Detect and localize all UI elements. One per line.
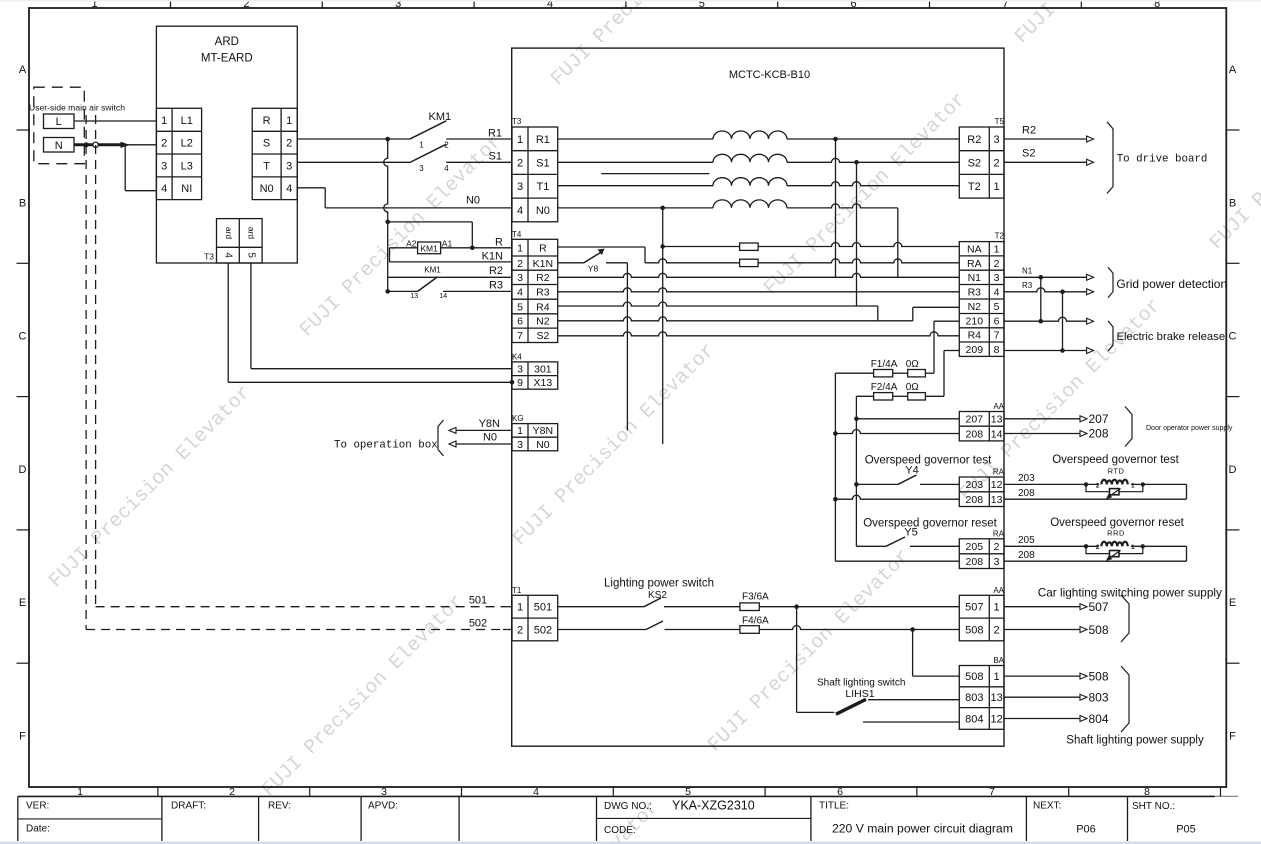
svg-text:A: A [19, 64, 27, 76]
svg-text:S2: S2 [968, 158, 981, 170]
label 803 (out) [1089, 691, 1109, 705]
svg-text:2: 2 [1096, 544, 1100, 551]
svg-text:T3: T3 [204, 252, 214, 262]
ARD block title text [201, 36, 253, 65]
vertical V1 to KG Y8N [626, 263, 628, 431]
wire 208 test return [1004, 498, 1187, 500]
svg-text:N2: N2 [968, 301, 982, 313]
svg-text:13: 13 [410, 293, 418, 300]
wire L to ARD 1|L1 [74, 120, 156, 122]
svg-text:B: B [19, 197, 26, 209]
svg-text:Grid power detection: Grid power detection [1116, 277, 1227, 291]
vertical RRD loop right [1186, 546, 1188, 561]
bracket shaft lighting [1121, 666, 1129, 732]
svg-text:1: 1 [517, 602, 523, 614]
wire T1 row with inductor [558, 182, 960, 186]
label R3 (out) [1022, 281, 1033, 290]
section label overspeed governor reset (left) [863, 517, 997, 529]
svg-text:YKA-XZG2310: YKA-XZG2310 [672, 799, 755, 813]
terminal table T5 (R2 S2 T2) [959, 127, 1004, 198]
label RA (reset) [993, 529, 1005, 538]
svg-text:K1N: K1N [533, 258, 553, 270]
pin 1 label RTD [1131, 482, 1135, 489]
svg-text:804: 804 [1089, 712, 1109, 726]
svg-text:5: 5 [245, 252, 256, 258]
svg-text:P06: P06 [1076, 824, 1096, 836]
svg-text:T: T [263, 160, 270, 172]
svg-text:K4: K4 [512, 353, 522, 362]
bracket grid power detection [1108, 267, 1113, 298]
label RA (test) [993, 468, 1005, 477]
wire R4 row to step at 877.8 [558, 302, 878, 321]
svg-text:KM1: KM1 [424, 265, 441, 274]
svg-text:508: 508 [1089, 669, 1109, 683]
svg-text:T4: T4 [512, 230, 522, 239]
svg-text:X13: X13 [534, 377, 553, 389]
svg-text:N: N [55, 140, 63, 152]
svg-text:AA: AA [993, 402, 1004, 411]
thermistor parallel branch (test) [1086, 484, 1143, 499]
svg-text:502: 502 [469, 618, 487, 630]
svg-text:4: 4 [286, 183, 292, 195]
fuse F2/4A body [874, 393, 893, 400]
switch label Y4 [905, 465, 918, 477]
dashed linkage line 1 (to 501) [96, 115, 503, 607]
svg-text:Y8: Y8 [588, 264, 599, 274]
svg-text:R2: R2 [489, 265, 503, 277]
junction dot S1/V4 [854, 160, 859, 165]
wire 207 output with arrow [1004, 416, 1087, 422]
bracket car lighting [1121, 595, 1129, 642]
svg-text:Lighting power switch: Lighting power switch [604, 578, 714, 590]
wire N1 output with arrow [1004, 274, 1094, 280]
svg-text:9: 9 [517, 377, 523, 389]
svg-text:4: 4 [223, 252, 234, 258]
svg-text:1: 1 [286, 115, 292, 127]
svg-text:L: L [56, 116, 62, 128]
svg-text:2: 2 [517, 258, 523, 270]
svg-text:RA: RA [993, 468, 1005, 477]
wire 205 to RRD [1004, 545, 1187, 547]
svg-text:NI: NI [181, 183, 192, 195]
svg-text:N0: N0 [483, 432, 497, 444]
terminal table K4 [512, 362, 558, 389]
label to drive board [1117, 154, 1208, 166]
label 207 (out) [1089, 412, 1109, 426]
fuse F2/4A row [856, 395, 944, 397]
title block texts [26, 799, 1196, 837]
label N1 (out) [1022, 266, 1033, 275]
label electric brake release [1117, 331, 1226, 343]
label T5 [995, 117, 1005, 126]
label grid power detection [1116, 277, 1227, 291]
svg-text:Overspeed governor reset: Overspeed governor reset [863, 517, 997, 529]
vertical V2 N0 net down to KG N0 [662, 208, 664, 444]
svg-text:5: 5 [685, 786, 691, 798]
svg-text:L3: L3 [181, 160, 193, 172]
svg-text:3: 3 [994, 556, 1000, 568]
wire ARD S|2 to KM1 contact (R1 line) [297, 138, 410, 140]
fuse F3/6A body [740, 603, 759, 611]
svg-text:Date:: Date: [26, 824, 50, 835]
terminal table AA door operator [959, 412, 1004, 441]
svg-text:1: 1 [517, 134, 523, 146]
svg-text:208: 208 [966, 556, 984, 568]
svg-text:R2: R2 [536, 272, 550, 284]
svg-text:205: 205 [1018, 535, 1035, 546]
svg-text:8: 8 [994, 344, 1000, 356]
label RTD [1108, 467, 1125, 476]
junction dot RRD right [1141, 544, 1145, 548]
svg-text:501: 501 [534, 602, 552, 614]
svg-text:2: 2 [161, 138, 167, 150]
svg-text:4: 4 [444, 164, 449, 173]
svg-text:14: 14 [439, 293, 447, 300]
svg-text:R2: R2 [967, 134, 981, 146]
wire R1 row with inductor [558, 138, 960, 140]
wire LIHS1 to BA 803 [868, 699, 959, 701]
bracket door operator power supply [1125, 407, 1132, 447]
svg-text:DWG NO.:: DWG NO.: [604, 801, 652, 812]
wire T4 1|R to step [558, 247, 645, 263]
open circle on N wire [93, 142, 98, 147]
svg-text:KG: KG [512, 414, 524, 423]
svg-text:2: 2 [1096, 482, 1100, 489]
svg-text:F: F [19, 731, 26, 743]
svg-text:P05: P05 [1176, 824, 1196, 836]
top strip [0, 0, 1261, 2]
svg-text:KM1: KM1 [420, 243, 438, 253]
title block grid [18, 796, 1128, 841]
svg-text:803: 803 [965, 692, 983, 704]
svg-text:2: 2 [229, 786, 235, 798]
wire BA 804 output with arrow [1004, 716, 1087, 722]
wire 208 reset row [835, 560, 959, 562]
vertical R3 to 209 [1060, 292, 1065, 353]
svg-text:2: 2 [994, 258, 1000, 270]
svg-text:T3: T3 [512, 117, 522, 126]
junction dot RTD left [1084, 482, 1088, 486]
wire ARD N0|4 to T3 4|N0 [297, 188, 512, 208]
svg-text:301: 301 [534, 364, 552, 376]
pin label 13 [410, 293, 418, 300]
svg-text:6: 6 [994, 315, 1000, 327]
terminal table T2 (NA..209) [959, 242, 1004, 357]
svg-text:0Ω: 0Ω [906, 359, 920, 370]
terminal table BA shaft lighting [959, 666, 1004, 730]
wire T4 2|K1N to Y8 switch [558, 262, 584, 264]
svg-text:ARD: ARD [215, 36, 239, 48]
svg-text:3: 3 [517, 364, 523, 376]
label F2/4A [871, 382, 898, 393]
svg-text:N1: N1 [1022, 266, 1033, 275]
wire Y8 to vertical V1 [606, 262, 627, 264]
svg-text:502: 502 [534, 624, 552, 636]
wire N to ARD 2|L2 (thick segment) [74, 143, 156, 146]
label R2 (T4) [489, 265, 503, 277]
wire KG Y8N output with left arrow [449, 427, 512, 433]
svg-text:2: 2 [994, 541, 1000, 553]
label to operation box [334, 439, 438, 451]
svg-text:Overspeed governor test: Overspeed governor test [865, 455, 992, 467]
label 508 (BA out) [1089, 669, 1109, 683]
switch pole N box [44, 138, 75, 153]
label R2 (out) [1022, 124, 1036, 136]
svg-text:LIHS1: LIHS1 [845, 688, 874, 700]
svg-text:R1: R1 [488, 127, 502, 139]
junction dot N wire branch [121, 142, 130, 148]
wire NA row from N0 node to T2 NA|1 with resistor [663, 243, 960, 247]
label T3 [512, 117, 522, 126]
label F3/6A [742, 592, 769, 603]
terminal table T3 (R1 S1 T1 N0) [512, 127, 558, 222]
svg-text:1: 1 [77, 786, 83, 798]
wire 508 output with arrow [1004, 627, 1087, 633]
label KM1 (aux) [424, 265, 441, 274]
wire 502 into T1 [503, 629, 512, 631]
wire 501 row with KS2 switch [558, 598, 740, 607]
svg-text:804: 804 [965, 713, 983, 725]
vertical tie line from R1 node down [384, 139, 388, 291]
svg-text:S: S [263, 138, 270, 150]
svg-text:APVD:: APVD: [368, 801, 398, 812]
svg-text:S1: S1 [536, 158, 549, 170]
wire ARD T|3 to KM1 contact (S1 line) [297, 161, 410, 163]
inductor choke N0 [713, 200, 787, 208]
label F1/4A [871, 359, 898, 370]
wire T4 3|R2 to aux contact node [388, 276, 512, 278]
junction dot on R wire [470, 246, 475, 251]
wire F3 to AA 507 [759, 604, 959, 609]
label 208 (test) [1018, 488, 1035, 499]
section label shaft lighting power supply [1066, 735, 1204, 747]
svg-text:1: 1 [517, 242, 523, 254]
terminal table RA governor reset [959, 539, 1004, 569]
label shaft lighting switch [817, 678, 905, 689]
junction dot V2/NA [660, 244, 665, 249]
wire drop to BA 508 [913, 630, 960, 677]
svg-text:203: 203 [1018, 473, 1035, 484]
svg-text:NEXT:: NEXT: [1033, 801, 1061, 812]
svg-text:1: 1 [517, 425, 523, 437]
svg-text:Car lighting switching power: Car lighting switching power supply [1038, 586, 1222, 600]
label Y8 [588, 264, 599, 274]
svg-text:D: D [19, 464, 27, 476]
svg-text:N0: N0 [536, 205, 550, 217]
svg-text:T1: T1 [536, 181, 549, 193]
wire 208 output with arrow [1004, 431, 1087, 437]
wire BA 803 output with arrow [1004, 694, 1087, 700]
vertical V4 from S1 to R4 row [856, 162, 858, 306]
svg-text:507: 507 [965, 602, 983, 614]
wire 208 door row [833, 430, 959, 436]
wire 203 row with Y4 switch [854, 475, 959, 487]
svg-text:3: 3 [286, 160, 292, 172]
label T1 [512, 586, 522, 595]
svg-text:208: 208 [966, 428, 984, 440]
svg-text:R2: R2 [1022, 124, 1036, 136]
fuse F1/4A row [835, 372, 934, 374]
svg-text:To drive board: To drive board [1117, 154, 1208, 166]
label KG [512, 414, 524, 423]
vertical N1 to 210 [1039, 277, 1044, 323]
svg-text:2: 2 [286, 138, 292, 150]
resistor RTD coil [1098, 479, 1131, 490]
svg-text:205: 205 [966, 541, 984, 553]
svg-text:210: 210 [966, 315, 984, 327]
svg-text:F2/4A: F2/4A [871, 382, 898, 393]
label AA (lighting) [993, 586, 1004, 595]
wire 210 output with arrow [1004, 317, 1094, 324]
label T4 [512, 230, 522, 239]
svg-text:R: R [495, 236, 503, 248]
svg-text:1: 1 [994, 671, 1000, 683]
wire ard pin 4 to K4 9|X13 [228, 263, 514, 385]
wire KG N0 output with left arrow [449, 441, 512, 447]
svg-text:208: 208 [1018, 550, 1035, 561]
svg-text:NA: NA [967, 244, 982, 256]
section label car lighting switching power supply [1038, 586, 1222, 600]
label A1 [442, 238, 453, 248]
terminal table T1 (501 502) [512, 595, 558, 641]
wire F4 to AA 508 [759, 626, 959, 632]
svg-text:3: 3 [517, 181, 523, 193]
svg-text:MT-EARD: MT-EARD [201, 53, 253, 65]
svg-text:7: 7 [989, 786, 995, 798]
svg-text:TITLE:: TITLE: [819, 801, 849, 812]
svg-text:4: 4 [517, 287, 523, 299]
wire T5 R2 output with arrow [1004, 136, 1094, 142]
label 205 [1018, 535, 1035, 546]
wire 209 output with arrow [1004, 348, 1094, 354]
svg-text:6: 6 [517, 316, 523, 328]
svg-text:N0: N0 [260, 183, 274, 195]
label 0 ohm (F1) [906, 359, 920, 370]
wire S2-R4 row [558, 332, 960, 336]
bracket to drive board [1107, 122, 1113, 194]
junction dot N0/V2 [660, 206, 665, 211]
svg-text:508: 508 [1089, 623, 1109, 637]
svg-text:REV:: REV: [268, 801, 291, 812]
right zone letters and ticks [1226, 64, 1239, 743]
svg-text:13: 13 [991, 494, 1003, 506]
svg-text:4: 4 [161, 183, 167, 195]
label N0 (KG) [483, 432, 497, 444]
switch label Y5 [904, 527, 917, 539]
contactor KM1 main contact 1-2 [410, 121, 447, 139]
fuse F1/4A body [874, 370, 893, 377]
label 501 [469, 595, 487, 607]
svg-text:3: 3 [381, 786, 387, 798]
svg-text:BA: BA [993, 656, 1004, 665]
resistor RRD coil [1098, 540, 1131, 551]
svg-text:13: 13 [990, 692, 1002, 704]
wire A1 to T4 1|R [441, 247, 512, 249]
wire R3 output with arrow [1004, 288, 1094, 295]
label 804 (out) [1089, 712, 1109, 726]
svg-text:220 V main power circuit diagr: 220 V main power circuit diagram [832, 822, 1013, 836]
label KM1 (main) [428, 111, 451, 123]
top zone ticks and numbers [92, 0, 1161, 10]
contactor KM1 aux contact 13-14 [388, 277, 512, 291]
wire 203 to RTD [1004, 483, 1187, 485]
svg-text:12: 12 [991, 479, 1003, 491]
svg-text:508: 508 [965, 671, 983, 683]
junction dot on N wire [84, 142, 89, 147]
svg-text:S2: S2 [536, 330, 549, 342]
svg-text:C: C [19, 331, 27, 343]
ARD left terminal table L1-NI [156, 108, 201, 199]
wire 208 reset return [1004, 560, 1187, 562]
svg-text:L2: L2 [181, 138, 193, 150]
wire N branch down to ARD 4|NI [125, 145, 156, 191]
svg-text:2: 2 [994, 624, 1000, 636]
label door operator power supply [1146, 425, 1233, 432]
label RRD [1107, 528, 1125, 537]
svg-text:7: 7 [517, 330, 523, 342]
wire N0 row with inductor [558, 204, 898, 208]
svg-text:AA: AA [993, 586, 1004, 595]
svg-text:ard: ard [224, 227, 234, 240]
label BA [993, 656, 1004, 665]
switch LIHS1 blade (bold) [836, 699, 866, 714]
svg-text:MCTC-KCB-B10: MCTC-KCB-B10 [729, 69, 810, 81]
svg-text:N2: N2 [536, 316, 550, 328]
svg-text:2: 2 [517, 158, 523, 170]
separator line under S1 [601, 173, 709, 175]
label N0 (left) [466, 195, 480, 207]
label T2 [995, 232, 1005, 241]
svg-text:RRD: RRD [1107, 528, 1125, 537]
branch wire to KM1 coil output node [388, 222, 473, 248]
wire S1 row with inductor [558, 158, 960, 162]
svg-text:Overspeed governor reset: Overspeed governor reset [1050, 517, 1184, 529]
inductor choke R1 [713, 131, 787, 139]
contactor KM1 main contact 3-4 [410, 144, 447, 162]
svg-text:F: F [1229, 731, 1236, 743]
svg-text:A: A [1229, 64, 1237, 76]
svg-text:1: 1 [1131, 544, 1135, 551]
svg-text:6: 6 [837, 786, 843, 798]
svg-text:T5: T5 [995, 117, 1005, 126]
svg-text:R3: R3 [968, 287, 982, 299]
pin label 1 [419, 141, 424, 150]
label KS2 [648, 590, 667, 601]
svg-text:A1: A1 [442, 238, 453, 248]
svg-text:F1/4A: F1/4A [871, 359, 898, 370]
resistor 0 ohm (F1) [908, 370, 926, 377]
svg-text:0Ω: 0Ω [906, 382, 920, 393]
svg-text:803: 803 [1089, 691, 1109, 705]
svg-text:13: 13 [991, 414, 1003, 426]
wire T5 S2 output with arrow [1004, 159, 1094, 165]
svg-text:E: E [19, 597, 26, 609]
svg-text:D: D [1229, 464, 1237, 476]
resistor on RA row [740, 259, 759, 266]
label 208 (reset) [1018, 550, 1035, 561]
svg-text:4: 4 [517, 205, 523, 217]
left zone letters and ticks [17, 64, 30, 743]
pin label 3 [419, 164, 424, 173]
svg-text:C: C [1229, 331, 1237, 343]
label 508 (out) [1089, 623, 1109, 637]
label Y8N [479, 418, 500, 430]
svg-text:3: 3 [994, 134, 1000, 146]
svg-text:7: 7 [994, 330, 1000, 342]
svg-text:N0: N0 [536, 439, 550, 451]
svg-text:User-side main air switch: User-side main air switch [29, 102, 125, 112]
svg-text:5: 5 [517, 301, 523, 313]
